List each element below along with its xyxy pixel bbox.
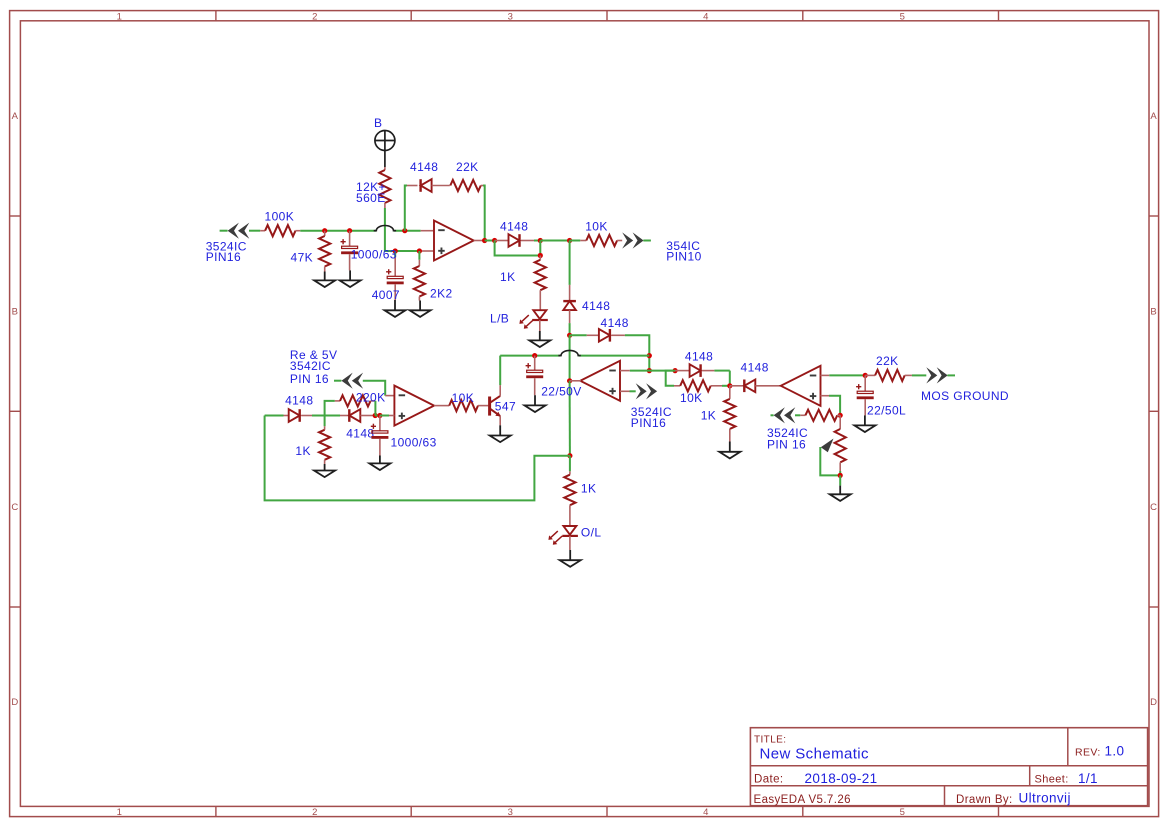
wire 547 emitter down (499, 416, 501, 425)
net label 3524IC PIN16 (206, 239, 247, 264)
wire pot bottom to ground (839, 475, 841, 485)
svg-text:1000/63: 1000/63 (391, 436, 437, 450)
diode 4148 vertical (563, 285, 576, 323)
wire to U2 plus lead (380, 415, 395, 417)
wire op-amp U1 minus lead (421, 230, 434, 232)
svg-text:B: B (1150, 307, 1157, 318)
resistor 22K right (865, 370, 926, 381)
resistor 1K to LED L/B (535, 256, 546, 311)
net flag arrow 3524IC PIN16 (right, at U3) (636, 383, 647, 399)
svg-text:3542IC: 3542IC (290, 359, 331, 373)
LED O/L light arrows (551, 531, 558, 537)
diode 4148 from U3 minus (675, 364, 730, 377)
svg-text:Sheet:: Sheet: (1035, 774, 1069, 786)
net flag arrow MOS GROUND (right) (926, 367, 937, 383)
junction plus line - 4007 (393, 248, 398, 253)
wire left long loop (265, 416, 570, 501)
resistor 10K output (580, 235, 622, 246)
svg-text:C: C (11, 502, 18, 513)
diode 4148 horizontal from 335 node (570, 329, 625, 342)
svg-text:PIN 16: PIN 16 (290, 372, 329, 386)
svg-text:22/50V: 22/50V (541, 384, 581, 398)
frame row letters (11, 111, 1157, 708)
wire U4 minus lead (821, 374, 866, 376)
svg-text:22K: 22K (876, 354, 899, 368)
ground for capacitor 1000/63 no.2 (379, 456, 381, 464)
junction main-feedback (402, 228, 407, 233)
junction main-cap1000/63 (347, 228, 352, 233)
ground for 547 emitter (499, 425, 501, 435)
ground for 2K2 (419, 301, 421, 311)
svg-text:2: 2 (312, 807, 318, 818)
resistor 1K left (319, 426, 330, 464)
net flag arrow 3524IC PIN16 (left) (228, 223, 239, 239)
resistor 10K at U3 (674, 380, 730, 391)
resistor to pot (800, 410, 840, 421)
svg-text:22/50L: 22/50L (867, 404, 906, 418)
svg-text:1K: 1K (295, 444, 310, 458)
svg-text:22K: 22K (456, 160, 479, 174)
net label 3524IC PIN 16 at pot (767, 426, 808, 452)
svg-text:4148: 4148 (741, 360, 769, 374)
wire stub after arrow (643, 240, 651, 242)
wire U3 minus lead (620, 370, 675, 372)
capacitor 1000/63 no.1 (341, 231, 359, 271)
svg-text:EasyEDA V5.7.26: EasyEDA V5.7.26 (754, 794, 851, 806)
wire U4 plus lead (821, 396, 841, 416)
ground for 4007 (394, 300, 396, 310)
svg-text:O/L: O/L (581, 526, 602, 540)
svg-text:PIN16: PIN16 (206, 250, 241, 264)
wire junction to cap junction (375, 415, 380, 417)
svg-text:1/1: 1/1 (1078, 771, 1098, 786)
svg-text:2K2: 2K2 (430, 287, 453, 301)
resistor 12K+560E (379, 167, 390, 208)
svg-text:Drawn By:: Drawn By: (956, 794, 1013, 806)
resistor 100K (260, 225, 300, 236)
net flag arrow Re & 5V (left) (341, 373, 352, 389)
junction loop-1K (538, 253, 543, 258)
svg-text:5: 5 (900, 807, 906, 818)
junction U1 output loop (492, 238, 497, 243)
svg-text:4007: 4007 (372, 288, 400, 302)
junction 10K-1K-diodes (727, 383, 732, 388)
junction plus line 1 (373, 413, 378, 418)
resistor 1K to LED O/L (564, 456, 575, 526)
svg-text:1.0: 1.0 (1105, 744, 1125, 759)
wire U2 minus lead (385, 395, 394, 397)
LED L/B (532, 310, 548, 331)
svg-text:547: 547 (495, 400, 516, 414)
resistor 47K (319, 231, 330, 272)
junction at 335 (567, 333, 572, 338)
svg-text:MOS GROUND: MOS GROUND (921, 389, 1009, 403)
ground for 22/50V (534, 395, 536, 405)
net label Re & 5V 3542IC PIN 16 (290, 348, 338, 386)
capacitor 4007 (386, 251, 404, 300)
resistor 2K2 (414, 251, 425, 301)
wire hop over vertical at mid line (558, 350, 580, 355)
ground for LED O/L (569, 550, 571, 560)
wire diode 335 to right vertical (625, 335, 649, 370)
svg-text:4148: 4148 (346, 427, 374, 441)
junction mid line cap 22/50V (532, 353, 537, 358)
svg-text:220K: 220K (356, 391, 386, 405)
junction right vertical mid (647, 353, 652, 358)
wire diode to junction (534, 240, 540, 242)
svg-text:REV:: REV: (1075, 747, 1101, 759)
junction U3 output (567, 378, 572, 383)
svg-text:2018-09-21: 2018-09-21 (805, 771, 878, 786)
wire right of diode down (729, 371, 731, 386)
wire bypass loop under diode (495, 241, 541, 256)
wire junction down to U3 output (569, 335, 571, 381)
resistor 22K feedback (450, 180, 483, 191)
diode 4148 at U1 output (495, 234, 534, 247)
net flag arrow 3524IC PIN 16 (left at pot) (774, 407, 785, 423)
junction U3 minus node (673, 368, 678, 373)
frame column ticks (216, 11, 999, 817)
wire stub before left arrow at pot (771, 414, 774, 416)
wire B resistor to plus input (385, 208, 421, 251)
LED L/B light arrows (522, 315, 529, 321)
svg-text:2: 2 (312, 11, 318, 22)
potentiometer wiper arrow (821, 439, 834, 453)
op-amp U3 (580, 361, 620, 401)
svg-text:TITLE:: TITLE: (754, 735, 786, 746)
svg-text:1: 1 (117, 807, 123, 818)
op-amp U1 (434, 221, 474, 261)
diode 4148 no.1 left (265, 409, 312, 422)
wire U3 output down to O/L branch (569, 381, 571, 456)
resistor 1K right (724, 386, 735, 442)
ground for 22/50L (864, 415, 866, 425)
transistor Q1 547 (490, 396, 501, 417)
wire net 3524IC PIN16 stub (220, 230, 228, 232)
junction plus line 2 (377, 413, 382, 418)
svg-text:Date:: Date: (754, 774, 784, 786)
ground for 47K (324, 272, 326, 281)
svg-text:560E: 560E (356, 191, 386, 205)
junction right vertical minus (647, 368, 652, 373)
svg-text:10K: 10K (585, 220, 608, 234)
svg-text:A: A (12, 111, 19, 122)
svg-text:D: D (11, 697, 18, 708)
diode 4148 to U4 output (730, 380, 781, 393)
svg-text:4148: 4148 (601, 316, 629, 330)
diode 4148 no.2 left (340, 409, 375, 422)
svg-text:1K: 1K (701, 409, 716, 423)
svg-text:4148: 4148 (285, 394, 313, 408)
wire between left diodes (312, 415, 340, 417)
resistor 220K (325, 395, 376, 426)
svg-text:1000/63: 1000/63 (351, 248, 397, 262)
junction pot bottom (838, 473, 843, 478)
svg-text:A: A (1150, 111, 1157, 122)
wire junction to 10K (570, 240, 581, 242)
junction diode out (538, 238, 543, 243)
svg-text:47K: 47K (291, 251, 314, 265)
svg-text:10K: 10K (680, 391, 703, 405)
wire U1 output lead (474, 240, 485, 242)
svg-text:4: 4 (703, 807, 709, 818)
svg-text:4148: 4148 (582, 299, 610, 313)
net label 3524IC PIN16 at U3 (631, 405, 672, 430)
wire L to 10K (666, 371, 675, 386)
ground for 1K left (324, 464, 326, 471)
diode 4148 feedback (407, 179, 450, 192)
wire hop over vertical at 384.9 (374, 225, 396, 230)
svg-text:D: D (1150, 697, 1157, 708)
wire arrow to 100K (249, 230, 260, 232)
op-amp U4 (781, 366, 821, 406)
svg-text:3: 3 (508, 11, 514, 22)
wire stub after MOS arrow (947, 374, 955, 376)
wire diode to junction 335 (569, 323, 571, 335)
wire pot wiper loop (820, 447, 840, 475)
svg-text:C: C (1150, 502, 1157, 513)
wire down from main out (569, 241, 571, 285)
junction main-47K (322, 228, 327, 233)
wire main node line (300, 230, 420, 232)
capacitor 22/50L (856, 375, 874, 415)
ground for 1K right (729, 442, 731, 452)
junction pot top (838, 413, 843, 418)
svg-text:1: 1 (117, 11, 123, 22)
wire Re arrow to U2 minus (363, 381, 385, 396)
junction plus line - 2K2 (417, 248, 422, 253)
junction O/L branch (567, 453, 572, 458)
wire to 10K junction (540, 240, 569, 242)
ground for potentiometer (839, 486, 841, 495)
wire U3 plus lead (620, 390, 636, 392)
label 12K+ 560E (356, 180, 386, 205)
svg-text:PIN 16: PIN 16 (767, 438, 806, 452)
wire stub before Re arrow (334, 380, 341, 382)
svg-text:4: 4 (703, 11, 709, 22)
capacitor 22/50V (526, 356, 544, 396)
svg-text:Ultronvij: Ultronvij (1019, 791, 1071, 806)
resistor 10K at U2 output (449, 400, 488, 411)
svg-text:B: B (374, 116, 382, 130)
junction U1 output-feedback (482, 238, 487, 243)
svg-text:100K: 100K (265, 210, 295, 224)
svg-text:B: B (12, 307, 19, 318)
svg-text:4148: 4148 (410, 160, 438, 174)
op-amp U2 (394, 386, 434, 426)
wire 547 collector up (499, 356, 501, 396)
svg-text:New Schematic: New Schematic (760, 746, 870, 763)
svg-text:1K: 1K (581, 482, 596, 496)
wire feedback left vertical (405, 186, 407, 231)
wire arrow to pot resistor (795, 414, 800, 416)
ground for LED L/B (539, 331, 541, 340)
net label 354IC PIN10 (666, 239, 701, 264)
frame row ticks (10, 216, 1159, 607)
svg-text:10K: 10K (452, 391, 475, 405)
wire 547 collector to mid line (500, 355, 649, 357)
potentiometer body (835, 415, 846, 475)
svg-text:PIN16: PIN16 (631, 416, 666, 430)
junction main out - down branch (567, 238, 572, 243)
net flag arrow 354IC PIN10 (right) (622, 232, 633, 248)
frame column numbers (117, 11, 906, 818)
wire feedback right vertical (483, 186, 485, 241)
junction U4 minus - 22K - cap (863, 373, 868, 378)
net flag B symbol (375, 131, 395, 168)
wire U3 output lead (570, 380, 581, 382)
svg-text:4148: 4148 (685, 350, 713, 364)
capacitor 1000/63 no.2 (371, 416, 389, 456)
svg-text:PIN10: PIN10 (666, 250, 701, 264)
svg-text:3: 3 (508, 807, 514, 818)
svg-text:4148: 4148 (500, 220, 528, 234)
wire U2 output lead (434, 405, 449, 407)
title block outline (750, 728, 1147, 806)
wire op-amp U1 plus lead (421, 250, 434, 252)
LED O/L (562, 526, 578, 550)
svg-text:1K: 1K (500, 270, 515, 284)
ground for capacitor 1000/63 no.1 (349, 270, 351, 280)
svg-text:5: 5 (900, 11, 906, 22)
wire U1 output to diode (485, 240, 495, 242)
svg-text:L/B: L/B (490, 311, 509, 325)
